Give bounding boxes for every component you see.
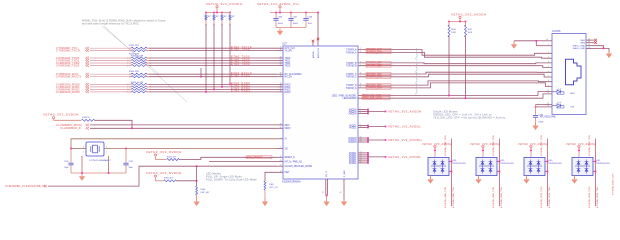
svg-text:C436: C436 xyxy=(278,16,283,18)
junction DVDDL group xyxy=(367,156,369,158)
resistor pad mark xyxy=(221,24,223,26)
svg-text:CLK125_NDO/LED_MODE: CLK125_NDO/LED_MODE xyxy=(285,166,313,168)
resistor R105d 22R xyxy=(131,65,147,67)
power port DVDDH mdio xyxy=(53,117,55,119)
svg-text:ETHERN_DDM_CON: ETHERN_DDM_CON xyxy=(613,173,615,195)
pin stub SHELL_GND xyxy=(586,45,594,47)
TVS U41 diodes xyxy=(575,160,590,174)
wire shield gnd vertical xyxy=(535,41,537,46)
wire Y4 pin1 b xyxy=(71,148,79,150)
differential pair marker pair D xyxy=(416,84,417,96)
wire R138 top lead xyxy=(229,13,231,15)
resistor R165 12K1_1% xyxy=(264,181,266,190)
wire R166 bottom lead xyxy=(196,195,198,201)
svg-text:5: 5 xyxy=(150,92,151,94)
wire ETH0RN_DBP xyxy=(358,62,552,65)
junction P_GND xyxy=(326,195,328,197)
junction U41 vcc xyxy=(578,150,580,152)
pin stub ETH0_TXD0 xyxy=(277,57,283,59)
wire crystal gnd rail xyxy=(71,172,126,174)
port glyph N6RGMII_RXC xyxy=(86,73,90,76)
svg-text:1: 1 xyxy=(548,44,549,46)
svg-text:U27: U27 xyxy=(282,42,287,46)
wire avddh drop xyxy=(459,19,461,22)
wire C436 bottom lead xyxy=(275,20,277,27)
resistor pack pads xyxy=(129,57,132,59)
junction R136 to RXD xyxy=(213,89,215,91)
svg-text:100nF: 100nF xyxy=(278,23,284,25)
junction R140 LED1 xyxy=(448,95,450,97)
pin stub INT_N xyxy=(277,161,283,163)
wire ETH0_TXD2 left xyxy=(90,62,129,64)
ground U38 xyxy=(427,177,433,184)
junction rail R138 xyxy=(229,12,231,14)
junction AVDDL group xyxy=(367,127,369,129)
svg-text:34: 34 xyxy=(280,75,282,77)
wire AVDDH group to power xyxy=(368,111,386,113)
svg-text:YLW: YLW xyxy=(570,107,574,109)
wire R143 to MDIO xyxy=(95,120,133,128)
svg-text:C141: C141 xyxy=(129,161,134,163)
wire XO net xyxy=(104,148,277,150)
resistor pack pads xyxy=(129,65,132,67)
svg-text:R147 4K7: R147 4K7 xyxy=(167,156,177,158)
svg-text:6: 6 xyxy=(548,71,549,73)
pin stub RESET_N xyxy=(277,156,283,158)
crystal Y4 body xyxy=(86,142,104,156)
wire R135 bottom lead xyxy=(205,20,207,24)
svg-text:ETH0RN_DCM: ETH0RN_DCM xyxy=(367,77,383,79)
junction power rail xyxy=(216,12,218,14)
svg-text:DVDDL: DVDDL xyxy=(349,163,357,165)
wire C138 top lead xyxy=(535,105,537,115)
net label ETH0RN_DDM xyxy=(366,87,391,90)
wire ETH0RN_DDP xyxy=(358,81,552,85)
resistor pad mark xyxy=(229,24,231,26)
pin stub PAD xyxy=(343,179,345,201)
wire DVDDL group to power xyxy=(368,156,386,158)
svg-text:XI: XI xyxy=(285,139,288,141)
wire ETH0_RXD1 to U27 xyxy=(149,86,277,88)
pin stub ETH0_TXD3 xyxy=(277,65,283,67)
capacitor C140 18pF xyxy=(68,163,73,165)
svg-text:KRJ-5921S4NL: KRJ-5921S4NL xyxy=(540,117,557,119)
resistor R102 22R xyxy=(131,50,147,52)
pin stub U41 io1 xyxy=(593,161,596,163)
svg-text:VETH0_3V3_AVDDH: VETH0_3V3_AVDDH xyxy=(566,142,596,146)
wire ETH0_RXD2 to U27 xyxy=(149,88,277,90)
net label PME0_LED_LINK1 xyxy=(362,97,390,100)
svg-text:3 LAN0MDIO_D: 3 LAN0MDIO_D xyxy=(60,126,81,130)
svg-text:PRTR5V0U2X: PRTR5V0U2X xyxy=(549,163,563,165)
svg-text:ETHERN_DBM_TRA: ETHERN_DBM_TRA xyxy=(500,187,503,208)
wire ETH0RN_DCP xyxy=(358,72,552,74)
wire R135 pulldown column xyxy=(205,24,207,92)
wire C436 top lead xyxy=(275,13,277,19)
wire ETHERN_DBP column U39 xyxy=(499,139,501,207)
wire Y4 pin2 to rail xyxy=(81,156,83,173)
resistor R143 1K xyxy=(82,119,95,121)
svg-text:2: 2 xyxy=(360,48,361,50)
svg-text:CON15: CON15 xyxy=(552,30,561,33)
junction DVDDH group power xyxy=(385,139,387,141)
wire ETH0_TXD3 to U27 xyxy=(149,65,277,67)
wire U38 gnd lead xyxy=(430,176,432,179)
wire ISET xyxy=(265,172,277,181)
wire power drop xyxy=(216,8,218,13)
pin stub DVDDL group 156.9 xyxy=(358,156,368,158)
ground R165 xyxy=(262,199,268,206)
ground P_GND xyxy=(323,199,329,206)
wire ETH0_TXD1 to U27 xyxy=(149,60,277,62)
ground SHELL_GND xyxy=(606,51,612,58)
junction U38 vcc xyxy=(434,150,436,152)
svg-text:3 P6RGMII_TXD3: 3 P6RGMII_TXD3 xyxy=(56,63,80,67)
LED GRN inside CON15 xyxy=(552,89,564,95)
resistor pack pads xyxy=(129,91,132,93)
resistor pad marks xyxy=(129,73,132,75)
svg-text:VETH0_3V3_DVDDH: VETH0_3V3_DVDDH xyxy=(206,2,243,6)
wire to pin1 xyxy=(536,45,552,47)
TVS U40 diodes xyxy=(527,160,542,174)
svg-text:C140: C140 xyxy=(64,161,69,163)
svg-text:R156 4K7: R156 4K7 xyxy=(164,178,174,180)
svg-text:R140: R140 xyxy=(451,29,456,31)
wire R137 top lead xyxy=(221,13,223,15)
svg-text:3 H94XREF_CLK25/GPIO8_T9: 3 H94XREF_CLK25/GPIO8_T9 xyxy=(5,184,46,188)
pin stub MDIO xyxy=(277,127,283,129)
junction rail C436 xyxy=(275,12,277,14)
wire Y4 pin1 xyxy=(79,148,86,150)
svg-text:ETH0RN_DAM: ETH0RN_DAM xyxy=(367,51,382,54)
junction rail R137 xyxy=(221,12,223,14)
pin stub AVDDL group 127.5 xyxy=(358,127,368,129)
wire ETH0_RXDV to U27 xyxy=(149,76,277,78)
wire ETH0_RXD1 left xyxy=(90,86,129,88)
svg-text:44: 44 xyxy=(360,162,362,164)
svg-text:VETH0_3V3_DVDDH: VETH0_3V3_DVDDH xyxy=(43,112,79,116)
svg-text:ETH0_RESET#: ETH0_RESET# xyxy=(247,157,264,159)
svg-text:VETH0_1V2_AVDDL_PLL: VETH0_1V2_AVDDL_PLL xyxy=(257,2,300,6)
pin stub ETH0_RXCLK xyxy=(277,73,283,75)
wire ETH0_RXCLK left xyxy=(90,73,129,75)
resistor R136 4K7 xyxy=(213,15,215,21)
wire U39 vcc lead xyxy=(482,148,484,158)
wire C438 top lead xyxy=(305,13,307,19)
svg-text:TXRXP_C: TXRXP_C xyxy=(346,74,357,76)
wire R137 pulldown column xyxy=(221,24,223,87)
wire mdio pullup drop xyxy=(53,119,55,121)
pin stub DVDDL group 160.9 xyxy=(358,160,368,162)
net label ETH0RN_DDP xyxy=(366,84,391,87)
svg-text:VETH0_3V3_DVDDH: VETH0_3V3_DVDDH xyxy=(388,138,422,142)
wire pll power rail xyxy=(270,12,318,14)
capacitor C437 100nF xyxy=(288,19,293,21)
wire U41 gnd lead xyxy=(574,176,576,179)
resistor pack pads xyxy=(129,62,132,64)
wire ETH0RN_DDM xyxy=(358,83,552,88)
junction rail C437 xyxy=(290,12,292,14)
port glyph T6RGMII_TXC xyxy=(86,47,90,50)
wire C438 bottom lead xyxy=(305,20,307,27)
ground crystal xyxy=(79,174,85,181)
wire AVDDL_PLL to U27 top pin xyxy=(317,13,319,47)
resistor R105b 22R xyxy=(131,60,147,62)
wire ETH0_RXD3 left xyxy=(90,91,129,93)
pin stub ETH0_RXD3 xyxy=(277,91,283,93)
pin stub U38 io2 xyxy=(449,171,452,173)
wire ETH0_TXEN to U27 xyxy=(149,50,277,52)
wire R135 top lead xyxy=(205,13,207,15)
wire C437 bottom lead xyxy=(290,20,292,27)
wire shield gnd horizontal xyxy=(514,40,536,42)
wire R156 to node xyxy=(177,180,197,182)
wire LED0_LED_LINK to pin12 xyxy=(543,94,552,98)
junction Y4 pin4 rail xyxy=(108,172,110,174)
pin stub ETH0_TXCLK xyxy=(277,47,283,49)
resistor pad mark xyxy=(205,24,207,26)
pin stub DVDDH group 138.0 xyxy=(358,137,368,139)
TVS U39 diodes xyxy=(479,160,494,174)
junction DVDDL group xyxy=(367,152,369,154)
svg-text:ETH0_RXDV: ETH0_RXDV xyxy=(231,73,250,77)
wire U40 gnd lead xyxy=(526,176,528,179)
svg-text:100R: 100R xyxy=(451,32,456,34)
wire ETH0_TXD1 left xyxy=(90,60,129,62)
RJ45 jack symbol xyxy=(566,59,582,84)
pin stub ETH0_TXD2 xyxy=(277,62,283,64)
junction avddh r140 xyxy=(448,21,450,23)
pin stub AVDDH group 113.5 xyxy=(358,113,368,115)
svg-text:4: 4 xyxy=(127,65,128,67)
resistor R138 4K7 xyxy=(229,15,231,21)
ground U40 xyxy=(523,177,529,184)
wire join DVDDH group xyxy=(367,138,369,142)
pin stub DVDDL group 158.9 xyxy=(358,158,368,160)
wire ETH0_TXCLK to U27 xyxy=(149,47,277,49)
power port VETH0_3V3_DVDDH top xyxy=(216,6,218,8)
resistor R156 4K7 xyxy=(164,180,177,182)
no-connect X MH2 xyxy=(594,41,597,44)
wire ETH0_RXD0 left xyxy=(90,83,129,85)
svg-text:ETHERN_DDM_CON: ETHERN_DDM_CON xyxy=(589,186,591,208)
svg-text:9: 9 xyxy=(548,85,549,87)
port glyph P6RGMII_RXCTL xyxy=(86,75,90,78)
pin stub DVDDH group 142.0 xyxy=(358,141,368,143)
svg-text:GRN: GRN xyxy=(570,93,575,95)
svg-text:and with same length reference: and with same length reference to TXC & … xyxy=(82,22,139,26)
svg-text:P_GND: P_GND xyxy=(344,170,346,177)
svg-text:14: 14 xyxy=(588,41,590,43)
wire ETH0_TXEN left xyxy=(90,50,129,52)
wire R141 to LED2 xyxy=(465,36,467,98)
pin stub DVDDL group 154.9 xyxy=(358,154,368,156)
wire ETH0RN_DBM xyxy=(358,66,552,68)
wire reset pullup drop xyxy=(155,156,157,159)
pin stub MH2 xyxy=(586,42,594,44)
svg-text:ETHERN_DBP_CON: ETHERN_DBP_CON xyxy=(493,135,495,156)
wire C138 bottom lead xyxy=(535,117,537,124)
svg-text:R103 22R: R103 22R xyxy=(129,71,139,73)
resistor R106d 22R xyxy=(131,91,147,93)
junction pin10 xyxy=(535,40,537,42)
wire ledmode pullup drop xyxy=(155,177,157,181)
junction AVDDH group xyxy=(367,113,369,115)
no-ERC marker AVDDL_PLL xyxy=(317,38,320,41)
junction DVDDH group xyxy=(367,139,369,141)
note callout line 1 xyxy=(102,26,159,74)
net label ETH0RN_DAM xyxy=(366,51,391,54)
net label ETH0RN_DAP xyxy=(366,48,391,51)
power port VETH0_1V2_AVDDL_PLL xyxy=(279,6,281,8)
svg-text:4: 4 xyxy=(106,152,107,154)
junction U39 io2 xyxy=(499,171,501,173)
svg-text:16: 16 xyxy=(588,47,590,49)
svg-text:MDC: MDC xyxy=(285,125,290,127)
junction rail C438 xyxy=(305,12,307,14)
svg-text:R101 22R: R101 22R xyxy=(129,45,139,47)
svg-text:5: 5 xyxy=(360,64,361,66)
svg-text:ISET: ISET xyxy=(285,172,291,174)
svg-text:YELLOW_LED: OFF = No activity: YELLOW_LED: OFF = No activity BLINKING =… xyxy=(433,116,506,120)
resistor pad marks xyxy=(129,76,132,78)
wire ETH0RN_DAM xyxy=(358,52,552,58)
resistor pack pads xyxy=(129,83,132,85)
wire ETH0_TXD0 to U27 xyxy=(149,57,277,59)
wire DVDDH group to power xyxy=(368,139,386,141)
crystal Y4 symbol xyxy=(93,145,98,153)
pin stub XI xyxy=(277,138,283,140)
wire XI net xyxy=(71,139,277,149)
wire AVDDL group to power xyxy=(368,126,386,128)
svg-text:49: 49 xyxy=(340,192,342,194)
junction U41 io2 xyxy=(595,171,597,173)
port glyph LAN0MDC xyxy=(86,124,90,127)
note callout line 2 xyxy=(104,26,187,102)
junction R137 to RXD xyxy=(221,86,223,88)
port glyph T6RGMII_TXCTL xyxy=(86,49,90,52)
svg-text:4: 4 xyxy=(548,61,549,63)
wire ETH0_TXD2 to U27 xyxy=(149,62,277,64)
wire R141 top lead xyxy=(465,22,467,27)
wire shield gnd stub xyxy=(513,41,515,44)
svg-text:C437: C437 xyxy=(293,16,298,18)
wire SHELL_GND to ground xyxy=(594,48,609,52)
svg-text:PRTR5V0U2X: PRTR5V0U2X xyxy=(597,163,611,165)
svg-text:AVDD_PLL: AVDD_PLL xyxy=(317,47,320,58)
resistor R105c 22R xyxy=(131,62,147,64)
pin stub P_GND a xyxy=(325,179,327,196)
svg-text:TXRXM_C: TXRXM_C xyxy=(346,77,357,79)
junction U40 vcc xyxy=(530,150,532,152)
pin stub ETH0_RXD1 xyxy=(277,86,283,88)
svg-text:ETHERN_DDP_CON: ETHERN_DDP_CON xyxy=(589,135,591,156)
junction DVDDH group xyxy=(367,141,369,143)
pin stub ISET xyxy=(277,171,283,173)
junction C138 pin14 xyxy=(535,106,537,108)
svg-text:7: 7 xyxy=(548,76,549,78)
wire R136 top lead xyxy=(213,13,215,15)
wire P_GND to ground xyxy=(326,196,328,201)
svg-text:5: 5 xyxy=(548,66,549,68)
pin stub AVDDH group 111.5 xyxy=(358,111,368,113)
svg-text:100nF: 100nF xyxy=(293,23,299,25)
resistor R106b 22R xyxy=(131,86,147,88)
ground R166 xyxy=(193,199,199,206)
differential pair marker pair B xyxy=(416,61,417,73)
svg-text:SHELL_GND: SHELL_GND xyxy=(573,48,586,50)
wire join AVDDH group xyxy=(367,110,369,114)
pin stub U39 io1 xyxy=(497,161,500,163)
svg-text:ETHERN_DDM_TRA: ETHERN_DDM_TRA xyxy=(596,187,599,208)
svg-text:R143 1K: R143 1K xyxy=(82,117,90,119)
resistor R141 100R xyxy=(465,25,467,37)
ground U41 xyxy=(571,177,577,184)
junction rail R136 xyxy=(213,12,215,14)
pin stub U39 io2 xyxy=(497,171,500,173)
capacitor C436 100nF xyxy=(273,19,278,21)
svg-text:C438: C438 xyxy=(308,16,313,18)
capacitor C141 18pF xyxy=(123,163,128,165)
wire R140 top lead xyxy=(448,22,450,27)
wire R136 bottom lead xyxy=(213,20,215,24)
resistor R166 DNP_4K7 xyxy=(196,186,198,195)
junction DVDDL group xyxy=(367,158,369,160)
svg-text:RESET_N: RESET_N xyxy=(285,157,296,159)
resistor pack pads xyxy=(129,86,132,88)
svg-text:11: 11 xyxy=(360,112,362,114)
svg-text:4K7: 4K7 xyxy=(216,16,219,18)
svg-text:AVDDH: AVDDH xyxy=(349,112,357,115)
pin stub CLK125_NDO xyxy=(277,165,283,167)
resistor R140 100R xyxy=(448,25,450,37)
wire C141 bottom lead xyxy=(125,165,127,173)
svg-text:3 N6RGMII_RXD3: 3 N6RGMII_RXD3 xyxy=(56,90,80,94)
junction pll rail xyxy=(279,12,281,14)
capacitor C138 100nF xyxy=(533,116,538,118)
svg-text:TXRXM_B: TXRXM_B xyxy=(346,66,357,68)
port glyph P6RGMII_TXD0 xyxy=(86,57,90,60)
svg-text:ETHERN_DCP_CON: ETHERN_DCP_CON xyxy=(541,135,543,156)
resistor pad marks xyxy=(129,50,132,52)
junction DVDDL group xyxy=(367,162,369,164)
wire R138 bottom lead xyxy=(229,20,231,24)
wire ETH0_RXD0 to U27 xyxy=(149,83,277,85)
differential pair marker pair A xyxy=(416,48,417,60)
pin stub SHELL_GND xyxy=(586,47,594,49)
port glyph P6RGMII_TXD1 xyxy=(86,59,90,62)
wire ETH0_RXDV left xyxy=(90,76,129,78)
svg-text:RX_DV: RX_DV xyxy=(285,77,293,79)
svg-text:15: 15 xyxy=(588,44,590,46)
junction ledmode net xyxy=(196,165,198,167)
wire pin14 to C138 xyxy=(536,106,553,108)
junction R143 MDIO xyxy=(131,127,133,129)
resistor R137 4K7 xyxy=(221,15,223,21)
svg-text:3: 3 xyxy=(548,57,549,59)
capacitor C438 10uF xyxy=(303,19,308,21)
junction ledmode strap xyxy=(196,180,198,182)
wire P_GND join xyxy=(326,195,328,197)
junction SHELL_GND xyxy=(603,48,605,50)
junction U38 io2 xyxy=(451,171,453,173)
svg-text:ETHERN_DAP_CON: ETHERN_DAP_CON xyxy=(444,135,447,156)
wire C141 top lead xyxy=(125,149,127,163)
resistor pad mark xyxy=(213,24,215,26)
wire ETH0RN_DAP xyxy=(358,50,552,56)
junction avddh r141 xyxy=(465,21,467,23)
wire SHELL_GND join xyxy=(594,46,604,49)
